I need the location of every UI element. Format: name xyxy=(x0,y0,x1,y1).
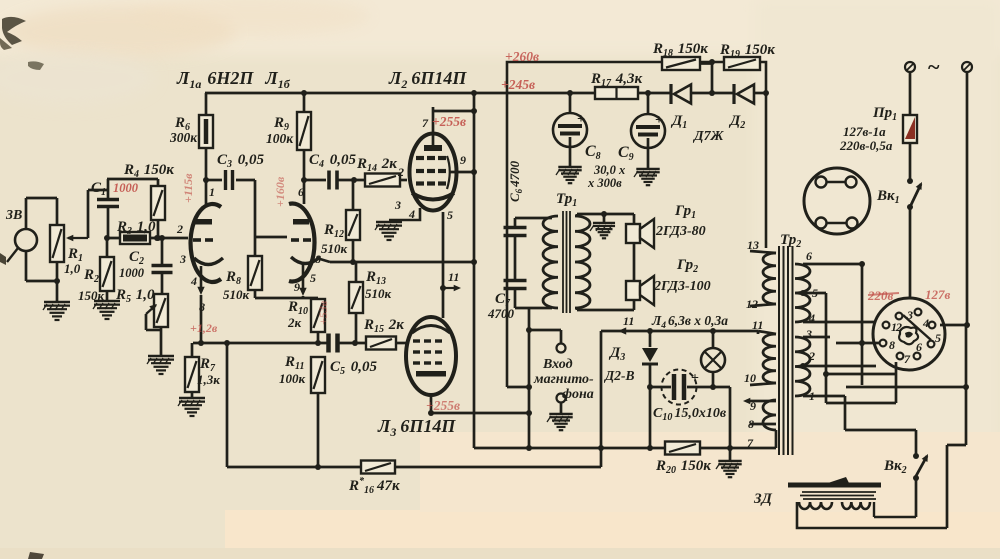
svg-text:100к: 100к xyxy=(279,371,306,386)
svg-text:5: 5 xyxy=(812,286,818,300)
svg-text:1,0: 1,0 xyxy=(64,261,81,276)
svg-text:+: + xyxy=(655,113,663,128)
svg-text:8: 8 xyxy=(748,417,754,431)
svg-text:7: 7 xyxy=(904,352,911,366)
svg-text:3: 3 xyxy=(394,198,401,212)
svg-text:R5 1,0: R5 1,0 xyxy=(115,287,155,305)
svg-text:R19 150к: R19 150к xyxy=(719,42,775,60)
svg-text:510к: 510к xyxy=(321,241,348,256)
svg-text:+245в: +245в xyxy=(501,77,535,92)
svg-text:Д2-В: Д2-В xyxy=(603,368,634,383)
svg-text:+53в: +53в xyxy=(316,300,330,325)
svg-text:3: 3 xyxy=(805,327,812,341)
svg-text:4: 4 xyxy=(808,311,815,325)
svg-text:+115в: +115в xyxy=(181,173,195,203)
svg-text:9: 9 xyxy=(460,153,466,167)
svg-text:3: 3 xyxy=(179,252,186,266)
svg-text:5: 5 xyxy=(310,271,316,285)
svg-text:4: 4 xyxy=(190,274,197,288)
svg-text:300к: 300к xyxy=(169,130,198,145)
svg-text:C5 0,05: C5 0,05 xyxy=(330,359,378,377)
svg-text:Л26П14П: Л26П14П xyxy=(388,68,467,91)
svg-text:C3 0,05: C3 0,05 xyxy=(217,152,265,170)
svg-text:7: 7 xyxy=(747,436,754,450)
svg-text:1: 1 xyxy=(809,389,815,403)
svg-text:+255в: +255в xyxy=(426,398,460,413)
svg-text:127в: 127в xyxy=(925,287,951,302)
svg-text:150к: 150к xyxy=(78,288,105,303)
svg-text:8: 8 xyxy=(889,338,895,352)
svg-text:R20 150к: R20 150к xyxy=(655,458,711,476)
svg-text:1000: 1000 xyxy=(113,181,139,195)
svg-text:х 300в: х 300в xyxy=(587,176,622,190)
svg-text:4: 4 xyxy=(922,316,929,330)
svg-text:2к: 2к xyxy=(287,315,302,330)
svg-text:510к: 510к xyxy=(365,286,392,301)
svg-text:2ГД3-80: 2ГД3-80 xyxy=(655,224,706,239)
svg-text:R3 1,0: R3 1,0 xyxy=(116,219,156,237)
svg-text:30,0 х: 30,0 х xyxy=(593,163,625,177)
svg-text:220в-0,5а: 220в-0,5а xyxy=(839,138,893,153)
svg-text:9: 9 xyxy=(294,280,300,294)
svg-text:11: 11 xyxy=(752,318,763,332)
svg-text:+260в: +260в xyxy=(505,49,539,64)
svg-text:магнито-: магнито- xyxy=(533,372,594,387)
svg-text:+255в: +255в xyxy=(432,114,466,129)
svg-text:1: 1 xyxy=(209,185,215,199)
svg-text:1,3к: 1,3к xyxy=(197,372,220,387)
svg-text:R4 150к: R4 150к xyxy=(123,162,174,180)
svg-text:11: 11 xyxy=(623,314,634,328)
svg-text:4700: 4700 xyxy=(487,306,515,321)
svg-text:5: 5 xyxy=(935,331,941,345)
svg-text:2ГД3-100: 2ГД3-100 xyxy=(653,279,711,294)
svg-text:1000: 1000 xyxy=(119,266,145,280)
svg-text:+: + xyxy=(577,112,585,127)
svg-text:11: 11 xyxy=(448,270,459,284)
svg-text:10: 10 xyxy=(744,371,756,385)
svg-text:13: 13 xyxy=(747,238,759,252)
svg-text:C64700: C64700 xyxy=(507,160,524,202)
svg-text:R17 4,3к: R17 4,3к xyxy=(590,71,643,89)
svg-text:9: 9 xyxy=(750,399,756,413)
svg-text:2: 2 xyxy=(397,165,404,179)
svg-text:12: 12 xyxy=(746,297,758,311)
svg-text:2: 2 xyxy=(808,349,815,363)
svg-text:6: 6 xyxy=(298,185,304,199)
svg-text:3: 3 xyxy=(906,308,913,322)
svg-text:4: 4 xyxy=(408,207,415,221)
svg-text:фона: фона xyxy=(562,387,594,402)
svg-text:5: 5 xyxy=(447,208,453,222)
svg-text:8: 8 xyxy=(315,252,321,266)
svg-text:+160в: +160в xyxy=(273,176,287,207)
svg-text:+1,2в: +1,2в xyxy=(190,321,218,335)
svg-text:Л36П14П: Л36П14П xyxy=(377,416,456,439)
svg-text:ЗД: ЗД xyxy=(753,491,773,507)
svg-text:6: 6 xyxy=(806,249,812,263)
svg-text:7: 7 xyxy=(422,116,429,130)
svg-text:~: ~ xyxy=(928,54,940,79)
svg-text:Вход: Вход xyxy=(542,357,573,372)
svg-text:510к: 510к xyxy=(223,287,250,302)
svg-text:6: 6 xyxy=(916,340,922,354)
svg-text:8: 8 xyxy=(199,300,205,314)
svg-text:100к: 100к xyxy=(266,131,294,146)
svg-text:2: 2 xyxy=(176,222,183,236)
svg-text:R18 150к: R18 150к xyxy=(652,41,708,59)
svg-text:C4 0,05: C4 0,05 xyxy=(309,152,357,170)
svg-text:3В: 3В xyxy=(5,208,22,223)
svg-text:127в-1а: 127в-1а xyxy=(843,124,886,139)
svg-text:Д7Ж: Д7Ж xyxy=(692,129,725,144)
svg-text:+: + xyxy=(691,371,699,386)
